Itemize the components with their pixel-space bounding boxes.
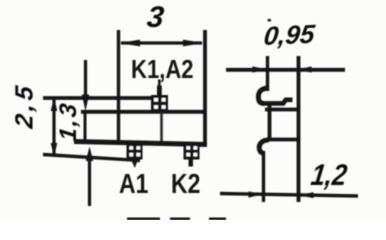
wire side view bottom lead (262, 151, 265, 202)
wire body top edge (line B) (81, 110, 206, 114)
wire body bottom edge (74, 142, 207, 145)
wire body middle divider V3 (160, 112, 163, 141)
arrow upper extension of 1.3 dimension (points down to body top) (82, 60, 89, 111)
speck above 0,95 (268, 19, 272, 21)
wire extension line right of dimension 3 / package right edge V2 (203, 30, 207, 143)
wire side view divider 2 (266, 138, 300, 142)
svg-text:1,2: 1,2 (309, 158, 349, 191)
side view: dimension line 0.95 with outside arrows (226, 66, 345, 72)
wire side view right edge (297, 56, 301, 202)
pin A1 lead tip stub (131, 160, 138, 169)
pin K2 lead tip stub (189, 160, 194, 167)
wire side view left middle edge (268, 105, 272, 141)
svg-text:3: 3 (145, 1, 165, 34)
pin K2 (bottom right lead pad) (184, 143, 200, 160)
svg-text:1,3: 1,3 (55, 100, 82, 143)
pin A1 (bottom left lead pad) (127, 143, 143, 160)
lead hook 1 bottom edge with step (262, 100, 293, 104)
svg-text:0,95: 0,95 (262, 19, 316, 51)
wire body left edge (84, 111, 87, 142)
wire dimension line 3 (top) (120, 40, 204, 47)
wire bottom extension of 2.5 dimension (43, 155, 140, 161)
wire side view divider 1 (265, 108, 300, 112)
svg-text:2,5: 2,5 (11, 81, 39, 131)
svg-text:K2: K2 (171, 169, 200, 200)
pin K1,A2 lead stub (157, 86, 162, 97)
side view: dimension line 1.2 with outside arrows (220, 191, 358, 198)
lead hook 1 curl (258, 88, 267, 103)
wire side view left top edge (266, 56, 269, 91)
pin K1,A2 (top lead pad) (151, 95, 168, 111)
wire extension line left of dimension 3 / package step vertical V1 (117, 30, 120, 143)
arrow lower extension of 1.3 dimension (points up to body bottom) (86, 147, 93, 207)
wire extension line A (top of 2.5 dimension, at lead top level) (43, 96, 152, 100)
cut-off caption marks at bottom (127, 218, 226, 221)
svg-text:A1: A1 (119, 169, 148, 200)
lead hook 2 curl (259, 140, 269, 153)
dimension line 2.5 with arrows (51, 98, 58, 157)
svg-text:K1,A2: K1,A2 (131, 55, 194, 84)
